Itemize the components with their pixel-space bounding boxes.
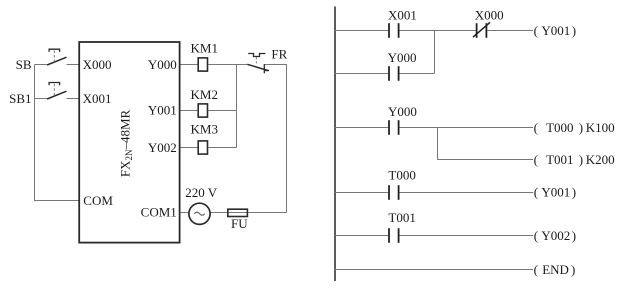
svg-text:): ) xyxy=(579,152,583,167)
svg-text:(: ( xyxy=(534,228,538,243)
svg-text:K100: K100 xyxy=(586,120,615,135)
svg-text:): ) xyxy=(579,120,583,135)
svg-text:(: ( xyxy=(534,185,538,200)
svg-text:KM1: KM1 xyxy=(191,40,218,55)
svg-text:(: ( xyxy=(534,120,538,135)
svg-text:K200: K200 xyxy=(586,152,615,167)
svg-text:SB1: SB1 xyxy=(9,91,31,106)
svg-text:COM1: COM1 xyxy=(141,204,177,219)
svg-text:X001: X001 xyxy=(83,91,112,106)
svg-text:Y002: Y002 xyxy=(541,228,570,243)
svg-text:SB: SB xyxy=(16,57,32,72)
svg-text:220 V: 220 V xyxy=(185,185,218,200)
svg-text:): ) xyxy=(572,228,576,243)
svg-text:END: END xyxy=(542,262,569,277)
svg-text:X001: X001 xyxy=(388,8,417,23)
svg-text:): ) xyxy=(571,262,575,277)
svg-text:COM: COM xyxy=(83,193,113,208)
svg-text:(: ( xyxy=(534,23,538,38)
svg-text:Y000: Y000 xyxy=(388,50,417,65)
svg-text:Y001: Y001 xyxy=(541,185,570,200)
svg-text:T000: T000 xyxy=(546,120,573,135)
svg-text:KM3: KM3 xyxy=(191,121,218,136)
svg-text:(: ( xyxy=(534,152,538,167)
svg-text:X000: X000 xyxy=(83,57,112,72)
svg-text:T001: T001 xyxy=(388,210,415,225)
svg-text:Y001: Y001 xyxy=(541,23,570,38)
svg-text:Y001: Y001 xyxy=(148,103,177,118)
svg-text:): ) xyxy=(572,185,576,200)
svg-text:FR: FR xyxy=(271,47,287,62)
svg-text:T001: T001 xyxy=(546,152,573,167)
svg-text:FX2N–48MR: FX2N–48MR xyxy=(118,109,135,177)
svg-text:Y000: Y000 xyxy=(388,104,417,119)
svg-text:FU: FU xyxy=(231,216,248,231)
svg-text:Y000: Y000 xyxy=(148,57,177,72)
svg-text:): ) xyxy=(572,23,576,38)
svg-text:Y002: Y002 xyxy=(148,140,177,155)
svg-text:KM2: KM2 xyxy=(191,87,218,102)
svg-text:T000: T000 xyxy=(388,167,415,182)
svg-text:X000: X000 xyxy=(475,8,504,23)
svg-text:(: ( xyxy=(534,262,538,277)
